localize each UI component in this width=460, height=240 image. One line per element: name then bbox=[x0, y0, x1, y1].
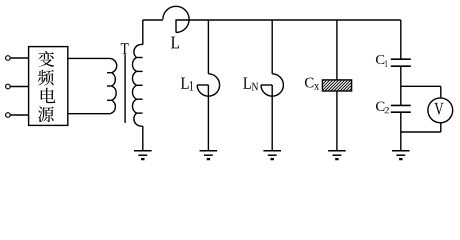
transformer T primary winding bbox=[107, 58, 117, 113]
wire C1-C2 node to voltmeter bbox=[401, 85, 441, 87]
label C2 letter C bbox=[376, 102, 384, 111]
label C1 letter C bbox=[376, 55, 384, 64]
wire down to voltmeter top bbox=[440, 86, 442, 98]
wire terminal 2 to source box bbox=[10, 86, 28, 88]
inductor L1 bbox=[197, 74, 219, 96]
label C2 subscript 2 bbox=[385, 107, 389, 113]
input terminal 3 bbox=[6, 113, 11, 118]
wire secondary top lead bbox=[142, 20, 144, 45]
label LN subscript N bbox=[252, 83, 258, 91]
ground CX bbox=[328, 151, 346, 159]
input terminal 1 bbox=[6, 56, 11, 61]
wire LN to ground bbox=[271, 85, 273, 151]
wire CX to ground bbox=[336, 91, 338, 151]
wire top bus left segment bbox=[143, 19, 163, 21]
capacitor CX (device under test, hatched) bbox=[322, 80, 351, 91]
wire terminal 3 to source box bbox=[10, 114, 28, 116]
wire box to transformer primary top bbox=[68, 57, 111, 59]
wire secondary bottom lead bbox=[142, 126, 144, 151]
wire top bus main segment bbox=[176, 19, 401, 21]
wire top bus to CX bbox=[336, 20, 338, 80]
inductor L bbox=[163, 6, 189, 32]
ground C branch bbox=[392, 151, 410, 159]
wire terminal 1 to source box bbox=[10, 57, 28, 59]
capacitor C1 bbox=[391, 59, 411, 66]
wire L1 to ground bbox=[207, 85, 209, 151]
label C1 subscript 1 bbox=[385, 60, 388, 66]
input terminal 2 bbox=[6, 84, 11, 89]
ground transformer secondary bbox=[134, 151, 152, 159]
voltmeter V bbox=[428, 98, 453, 123]
label L bbox=[171, 37, 179, 49]
wire top bus to LN bbox=[271, 20, 273, 74]
label L1 subscript 1 bbox=[190, 81, 193, 90]
wire top bus down to C1 bbox=[400, 20, 402, 59]
transformer T secondary winding bbox=[132, 44, 142, 126]
ground LN bbox=[263, 151, 281, 159]
label LN letter L bbox=[243, 78, 251, 89]
label V of voltmeter bbox=[435, 103, 444, 115]
variable-frequency power source box bbox=[29, 47, 68, 126]
capacitor C2 bbox=[391, 105, 411, 112]
transformer T core bbox=[124, 55, 126, 123]
label T bbox=[121, 43, 129, 54]
label 变频电源 bbox=[38, 51, 55, 122]
label L1 letter L bbox=[181, 78, 189, 89]
label CX subscript x bbox=[314, 84, 319, 90]
wire voltmeter bottom down bbox=[440, 123, 442, 132]
wire box to transformer primary bottom bbox=[68, 113, 111, 115]
ground L1 bbox=[200, 151, 218, 159]
inductor LN bbox=[261, 74, 283, 96]
wire top bus to L1 bbox=[207, 20, 209, 74]
wire voltmeter to C2 bottom node bbox=[401, 131, 441, 133]
wire C1 to C2 bbox=[400, 66, 402, 105]
label CX letter C bbox=[305, 78, 313, 88]
wire C2 to ground bbox=[400, 112, 402, 151]
